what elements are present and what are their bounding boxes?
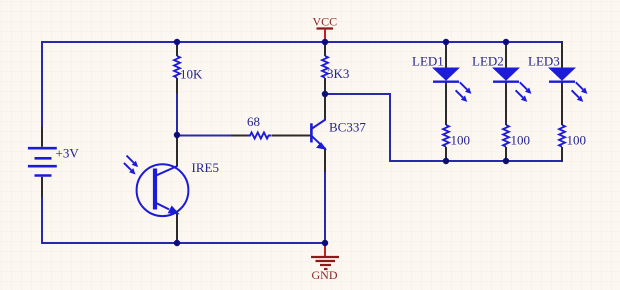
bar 4 [324, 268, 328, 270]
pin top [505, 41, 507, 69]
pin bottom [324, 78, 326, 94]
stub [324, 29, 326, 41]
wire base node to 68 [177, 135, 232, 137]
wire collector to LED return rail [325, 94, 562, 161]
node base [174, 132, 180, 138]
svg-text:LED1: LED1 [412, 54, 444, 69]
resistor zigzag 100 [503, 125, 509, 147]
pin bottom [41, 177, 43, 197]
circle body [137, 164, 189, 216]
pin emitter [324, 148, 326, 173]
wire top rail [42, 41, 562, 43]
emitter stroke with arrow [157, 203, 169, 209]
battery BT +3V [28, 127, 79, 197]
zigzag [174, 56, 180, 78]
zigzag [322, 56, 328, 78]
pin top [41, 127, 43, 147]
emit arrow 2 [572, 90, 584, 102]
emit arrow 2 [456, 90, 468, 102]
wire emitter to bottom rail [324, 171, 326, 243]
LED2 [472, 41, 531, 161]
power port VCC [313, 15, 338, 42]
pin bottom [176, 78, 178, 94]
node emitter IRE5 [174, 240, 180, 246]
wire left vertical upper [41, 41, 43, 128]
power port GND [311, 243, 339, 282]
resistor R 3K3 [322, 41, 349, 94]
pin emitter [176, 214, 178, 244]
svg-text:68: 68 [247, 114, 260, 129]
svg-text:100: 100 [451, 133, 471, 148]
pin base [272, 135, 311, 137]
light arrow 2 [124, 163, 136, 175]
svg-text:VCC: VCC [313, 15, 338, 29]
svg-text:LED3: LED3 [528, 54, 560, 69]
plate short 2 [35, 174, 52, 177]
node LED2 bottom [503, 158, 509, 164]
node LED1 bottom [443, 158, 449, 164]
svg-text:GND: GND [312, 268, 338, 282]
svg-text:LED2: LED2 [472, 54, 504, 69]
node top LED2 [503, 39, 509, 45]
svg-text:BC337: BC337 [329, 120, 366, 135]
svg-text:100: 100 [511, 133, 531, 148]
wire 10K to node [176, 93, 178, 135]
pin collector [176, 135, 178, 167]
resistor R 68 [231, 114, 272, 139]
node GND [322, 240, 328, 246]
bar 2 [316, 260, 336, 262]
resistor R 10K [174, 41, 203, 94]
collector stroke [312, 120, 326, 129]
transistor Q1 BC337 [272, 94, 366, 172]
resistor zigzag 100 [559, 125, 565, 147]
pin top [324, 41, 326, 56]
wire LED3 top corner [561, 42, 563, 68]
pin top [176, 41, 178, 56]
cathode bar [493, 80, 519, 82]
collector stroke [157, 166, 178, 175]
emit arrow 2 [516, 90, 528, 102]
svg-text:IRE5: IRE5 [192, 160, 219, 175]
triangle [432, 68, 460, 81]
triangle [548, 68, 576, 81]
plate short 1 [35, 157, 52, 160]
pin left [231, 135, 248, 137]
bar 3 [320, 264, 331, 266]
node top 10K [174, 39, 180, 45]
light arrow 1 [127, 156, 139, 168]
base bar [310, 123, 313, 142]
pin collector [324, 94, 326, 120]
base bar [153, 169, 157, 210]
LED1 [412, 41, 471, 161]
resistor zigzag 100 [443, 125, 449, 147]
emit arrow 1 [576, 82, 588, 94]
plate long 2 [28, 165, 57, 168]
node collector [322, 91, 328, 97]
bar 1 [311, 256, 339, 258]
zigzag [247, 133, 272, 139]
pin top [561, 41, 563, 69]
wire bottom rail [41, 242, 325, 244]
pin middle [505, 82, 507, 125]
cathode bar [433, 80, 459, 82]
stub [324, 243, 326, 257]
triangle [492, 68, 520, 81]
emitter stroke with arrow [312, 136, 321, 145]
svg-text:10K: 10K [180, 67, 203, 82]
svg-text:100: 100 [567, 133, 587, 148]
bar [317, 27, 334, 29]
phototransistor Q2 IRE5 [124, 135, 219, 243]
wire left vertical lower [41, 196, 43, 243]
svg-text:+3V: +3V [56, 146, 80, 161]
pin bottom [505, 147, 507, 161]
emit arrow 1 [460, 82, 472, 94]
node top VCC [322, 39, 328, 45]
cathode bar [549, 80, 575, 82]
svg-text:3K3: 3K3 [327, 66, 349, 81]
plate long 1 [28, 147, 57, 150]
pin bottom [445, 147, 447, 161]
emit arrow 1 [520, 82, 532, 94]
pin middle [561, 82, 563, 125]
node top LED1 [443, 39, 449, 45]
pin bottom [561, 147, 563, 162]
pin middle [445, 82, 447, 125]
pin top [445, 41, 447, 69]
LED3 [528, 41, 587, 162]
